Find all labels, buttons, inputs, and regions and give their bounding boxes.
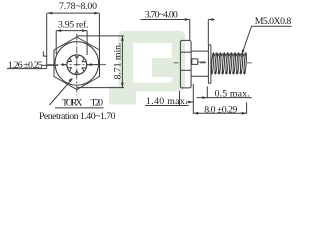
svg-text:7.78~8.00: 7.78~8.00 (59, 1, 97, 12)
svg-text:3.70~4.00: 3.70~4.00 (145, 10, 178, 21)
svg-text:3.95 ref.: 3.95 ref. (58, 20, 88, 31)
svg-text:T20: T20 (91, 97, 104, 108)
svg-text:8.71 min.: 8.71 min. (113, 42, 124, 79)
svg-text:1.40 max.: 1.40 max. (146, 96, 188, 107)
svg-text:Penetration 1.40~1.70: Penetration 1.40~1.70 (39, 111, 116, 122)
svg-text:1.26 ±0.25: 1.26 ±0.25 (8, 60, 43, 71)
svg-text:M5.0X0.8: M5.0X0.8 (255, 16, 292, 27)
svg-text:0.5 max.: 0.5 max. (215, 89, 250, 100)
svg-text:8.0 ±0.29: 8.0 ±0.29 (204, 104, 237, 115)
svg-text:TORX: TORX (62, 97, 83, 108)
